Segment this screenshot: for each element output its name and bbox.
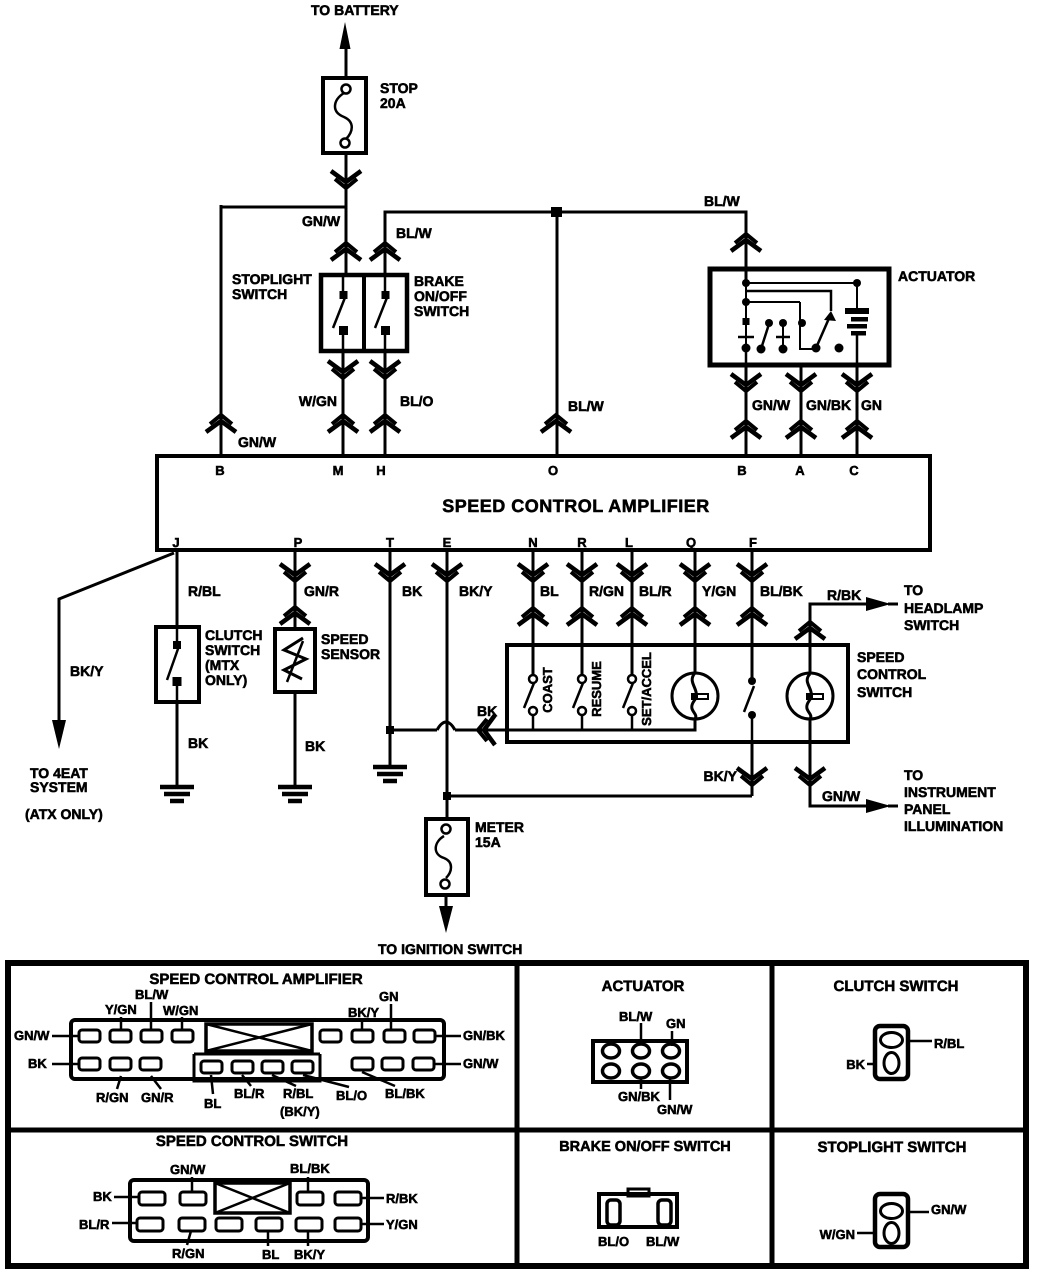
svg-text:BL: BL (204, 1096, 221, 1111)
svg-text:(BK/Y): (BK/Y) (280, 1104, 320, 1119)
svg-text:GN/W: GN/W (822, 788, 861, 804)
svg-text:B: B (215, 463, 224, 478)
svg-text:GN/W: GN/W (463, 1056, 499, 1071)
svg-text:BL/O: BL/O (598, 1234, 629, 1249)
svg-text:BL/W: BL/W (135, 987, 169, 1002)
svg-text:R/BL: R/BL (188, 583, 221, 599)
svg-text:BK: BK (28, 1056, 47, 1071)
svg-text:SET/ACCEL: SET/ACCEL (639, 652, 654, 726)
svg-text:BL/W: BL/W (619, 1009, 653, 1024)
svg-text:SWITCH: SWITCH (205, 642, 260, 658)
svg-text:W/GN: W/GN (299, 393, 337, 409)
svg-text:STOPLIGHT: STOPLIGHT (232, 271, 312, 287)
svg-text:COAST: COAST (540, 667, 555, 713)
svg-text:R/BL: R/BL (283, 1086, 313, 1101)
svg-text:W/GN: W/GN (820, 1227, 855, 1242)
svg-text:BK/Y: BK/Y (70, 663, 104, 679)
svg-text:J: J (172, 535, 179, 550)
svg-text:BL/W: BL/W (646, 1234, 680, 1249)
svg-text:BL/R: BL/R (79, 1217, 110, 1232)
svg-text:GN: GN (379, 989, 399, 1004)
svg-text:TO IGNITION SWITCH: TO IGNITION SWITCH (378, 941, 522, 957)
svg-text:TO BATTERY: TO BATTERY (311, 2, 399, 18)
svg-text:BK/Y: BK/Y (459, 583, 493, 599)
svg-text:BK/Y: BK/Y (348, 1005, 379, 1020)
svg-text:SWITCH: SWITCH (904, 617, 959, 633)
svg-text:20A: 20A (380, 95, 406, 111)
svg-text:Y/GN: Y/GN (105, 1002, 137, 1017)
svg-text:BK: BK (93, 1189, 112, 1204)
svg-text:BL/O: BL/O (400, 393, 434, 409)
svg-text:Y/GN: Y/GN (386, 1217, 418, 1232)
svg-text:BL/BK: BL/BK (760, 583, 803, 599)
svg-text:SWITCH: SWITCH (857, 684, 912, 700)
svg-text:O: O (548, 463, 558, 478)
svg-text:R: R (577, 535, 587, 550)
svg-text:BRAKE: BRAKE (414, 273, 464, 289)
svg-text:N: N (528, 535, 537, 550)
svg-text:T: T (386, 535, 394, 550)
svg-text:BK: BK (305, 738, 325, 754)
svg-text:SPEED CONTROL AMPLIFIER: SPEED CONTROL AMPLIFIER (149, 971, 363, 988)
svg-text:BK/Y: BK/Y (704, 768, 738, 784)
svg-text:GN/W: GN/W (14, 1028, 50, 1043)
svg-text:GN/W: GN/W (238, 434, 277, 450)
svg-text:GN/BK: GN/BK (618, 1089, 661, 1104)
svg-text:STOP: STOP (380, 80, 418, 96)
svg-text:HEADLAMP: HEADLAMP (904, 600, 983, 616)
svg-text:BK/Y: BK/Y (294, 1247, 325, 1262)
svg-text:P: P (294, 535, 303, 550)
svg-text:SPEED CONTROL SWITCH: SPEED CONTROL SWITCH (156, 1133, 348, 1150)
svg-text:(MTX: (MTX (205, 657, 240, 673)
svg-text:GN/W: GN/W (302, 213, 341, 229)
svg-text:SPEED CONTROL AMPLIFIER: SPEED CONTROL AMPLIFIER (442, 496, 710, 516)
svg-text:GN/W: GN/W (170, 1162, 206, 1177)
svg-text:L: L (625, 535, 633, 550)
svg-text:BL/BK: BL/BK (385, 1086, 425, 1101)
svg-text:B: B (737, 463, 746, 478)
svg-text:R/BK: R/BK (386, 1191, 418, 1206)
svg-text:BK: BK (477, 703, 497, 719)
svg-text:BL: BL (262, 1247, 279, 1262)
svg-text:GN/W: GN/W (657, 1102, 693, 1117)
svg-text:Y/GN: Y/GN (702, 583, 736, 599)
svg-text:ONLY): ONLY) (205, 672, 247, 688)
svg-text:SENSOR: SENSOR (321, 646, 380, 662)
svg-text:BK: BK (188, 735, 208, 751)
svg-text:BK: BK (846, 1057, 865, 1072)
svg-text:BL: BL (540, 583, 559, 599)
svg-text:GN/BK: GN/BK (463, 1028, 506, 1043)
svg-text:GN/W: GN/W (931, 1202, 967, 1217)
svg-text:H: H (376, 463, 385, 478)
svg-text:GN: GN (861, 397, 882, 413)
svg-text:GN/R: GN/R (141, 1090, 174, 1105)
svg-text:PANEL: PANEL (904, 801, 951, 817)
svg-text:CLUTCH: CLUTCH (205, 627, 263, 643)
svg-text:R/BL: R/BL (934, 1036, 964, 1051)
svg-text:SPEED: SPEED (321, 631, 368, 647)
svg-text:W/GN: W/GN (163, 1003, 198, 1018)
svg-text:ON/OFF: ON/OFF (414, 288, 467, 304)
svg-text:GN/R: GN/R (304, 583, 339, 599)
svg-text:METER: METER (475, 819, 524, 835)
svg-text:Q: Q (686, 535, 696, 550)
svg-text:GN/W: GN/W (752, 397, 791, 413)
svg-text:BL/W: BL/W (704, 193, 741, 209)
svg-text:F: F (749, 535, 757, 550)
svg-text:BL/O: BL/O (336, 1088, 367, 1103)
svg-text:SWITCH: SWITCH (232, 286, 287, 302)
svg-text:TO: TO (904, 767, 923, 783)
svg-text:CONTROL: CONTROL (857, 666, 927, 682)
svg-text:E: E (443, 535, 452, 550)
svg-text:BK: BK (402, 583, 422, 599)
svg-text:SPEED: SPEED (857, 649, 904, 665)
svg-text:(ATX ONLY): (ATX ONLY) (25, 806, 103, 822)
svg-text:GN: GN (666, 1016, 686, 1031)
svg-text:A: A (795, 463, 805, 478)
svg-text:R/GN: R/GN (172, 1246, 205, 1261)
svg-text:GN/BK: GN/BK (806, 397, 851, 413)
svg-text:R/GN: R/GN (589, 583, 624, 599)
svg-text:BL/R: BL/R (234, 1086, 265, 1101)
svg-text:ILLUMINATION: ILLUMINATION (904, 818, 1003, 834)
svg-text:BL/W: BL/W (396, 225, 433, 241)
svg-text:SWITCH: SWITCH (414, 303, 469, 319)
svg-text:ACTUATOR: ACTUATOR (602, 978, 685, 995)
svg-text:ACTUATOR: ACTUATOR (898, 268, 975, 284)
svg-text:R/BK: R/BK (827, 587, 861, 603)
svg-text:BL/R: BL/R (639, 583, 672, 599)
svg-text:INSTRUMENT: INSTRUMENT (904, 784, 996, 800)
svg-text:15A: 15A (475, 834, 501, 850)
svg-text:SYSTEM: SYSTEM (30, 779, 88, 795)
svg-text:CLUTCH SWITCH: CLUTCH SWITCH (834, 978, 959, 995)
svg-text:RESUME: RESUME (589, 661, 604, 717)
svg-text:STOPLIGHT SWITCH: STOPLIGHT SWITCH (818, 1139, 967, 1156)
svg-text:TO: TO (904, 582, 923, 598)
svg-text:BL/BK: BL/BK (290, 1161, 330, 1176)
svg-text:BL/W: BL/W (568, 398, 605, 414)
svg-text:BRAKE ON/OFF SWITCH: BRAKE ON/OFF SWITCH (559, 1139, 731, 1155)
svg-text:M: M (333, 463, 344, 478)
svg-text:C: C (849, 463, 859, 478)
svg-text:R/GN: R/GN (96, 1090, 129, 1105)
